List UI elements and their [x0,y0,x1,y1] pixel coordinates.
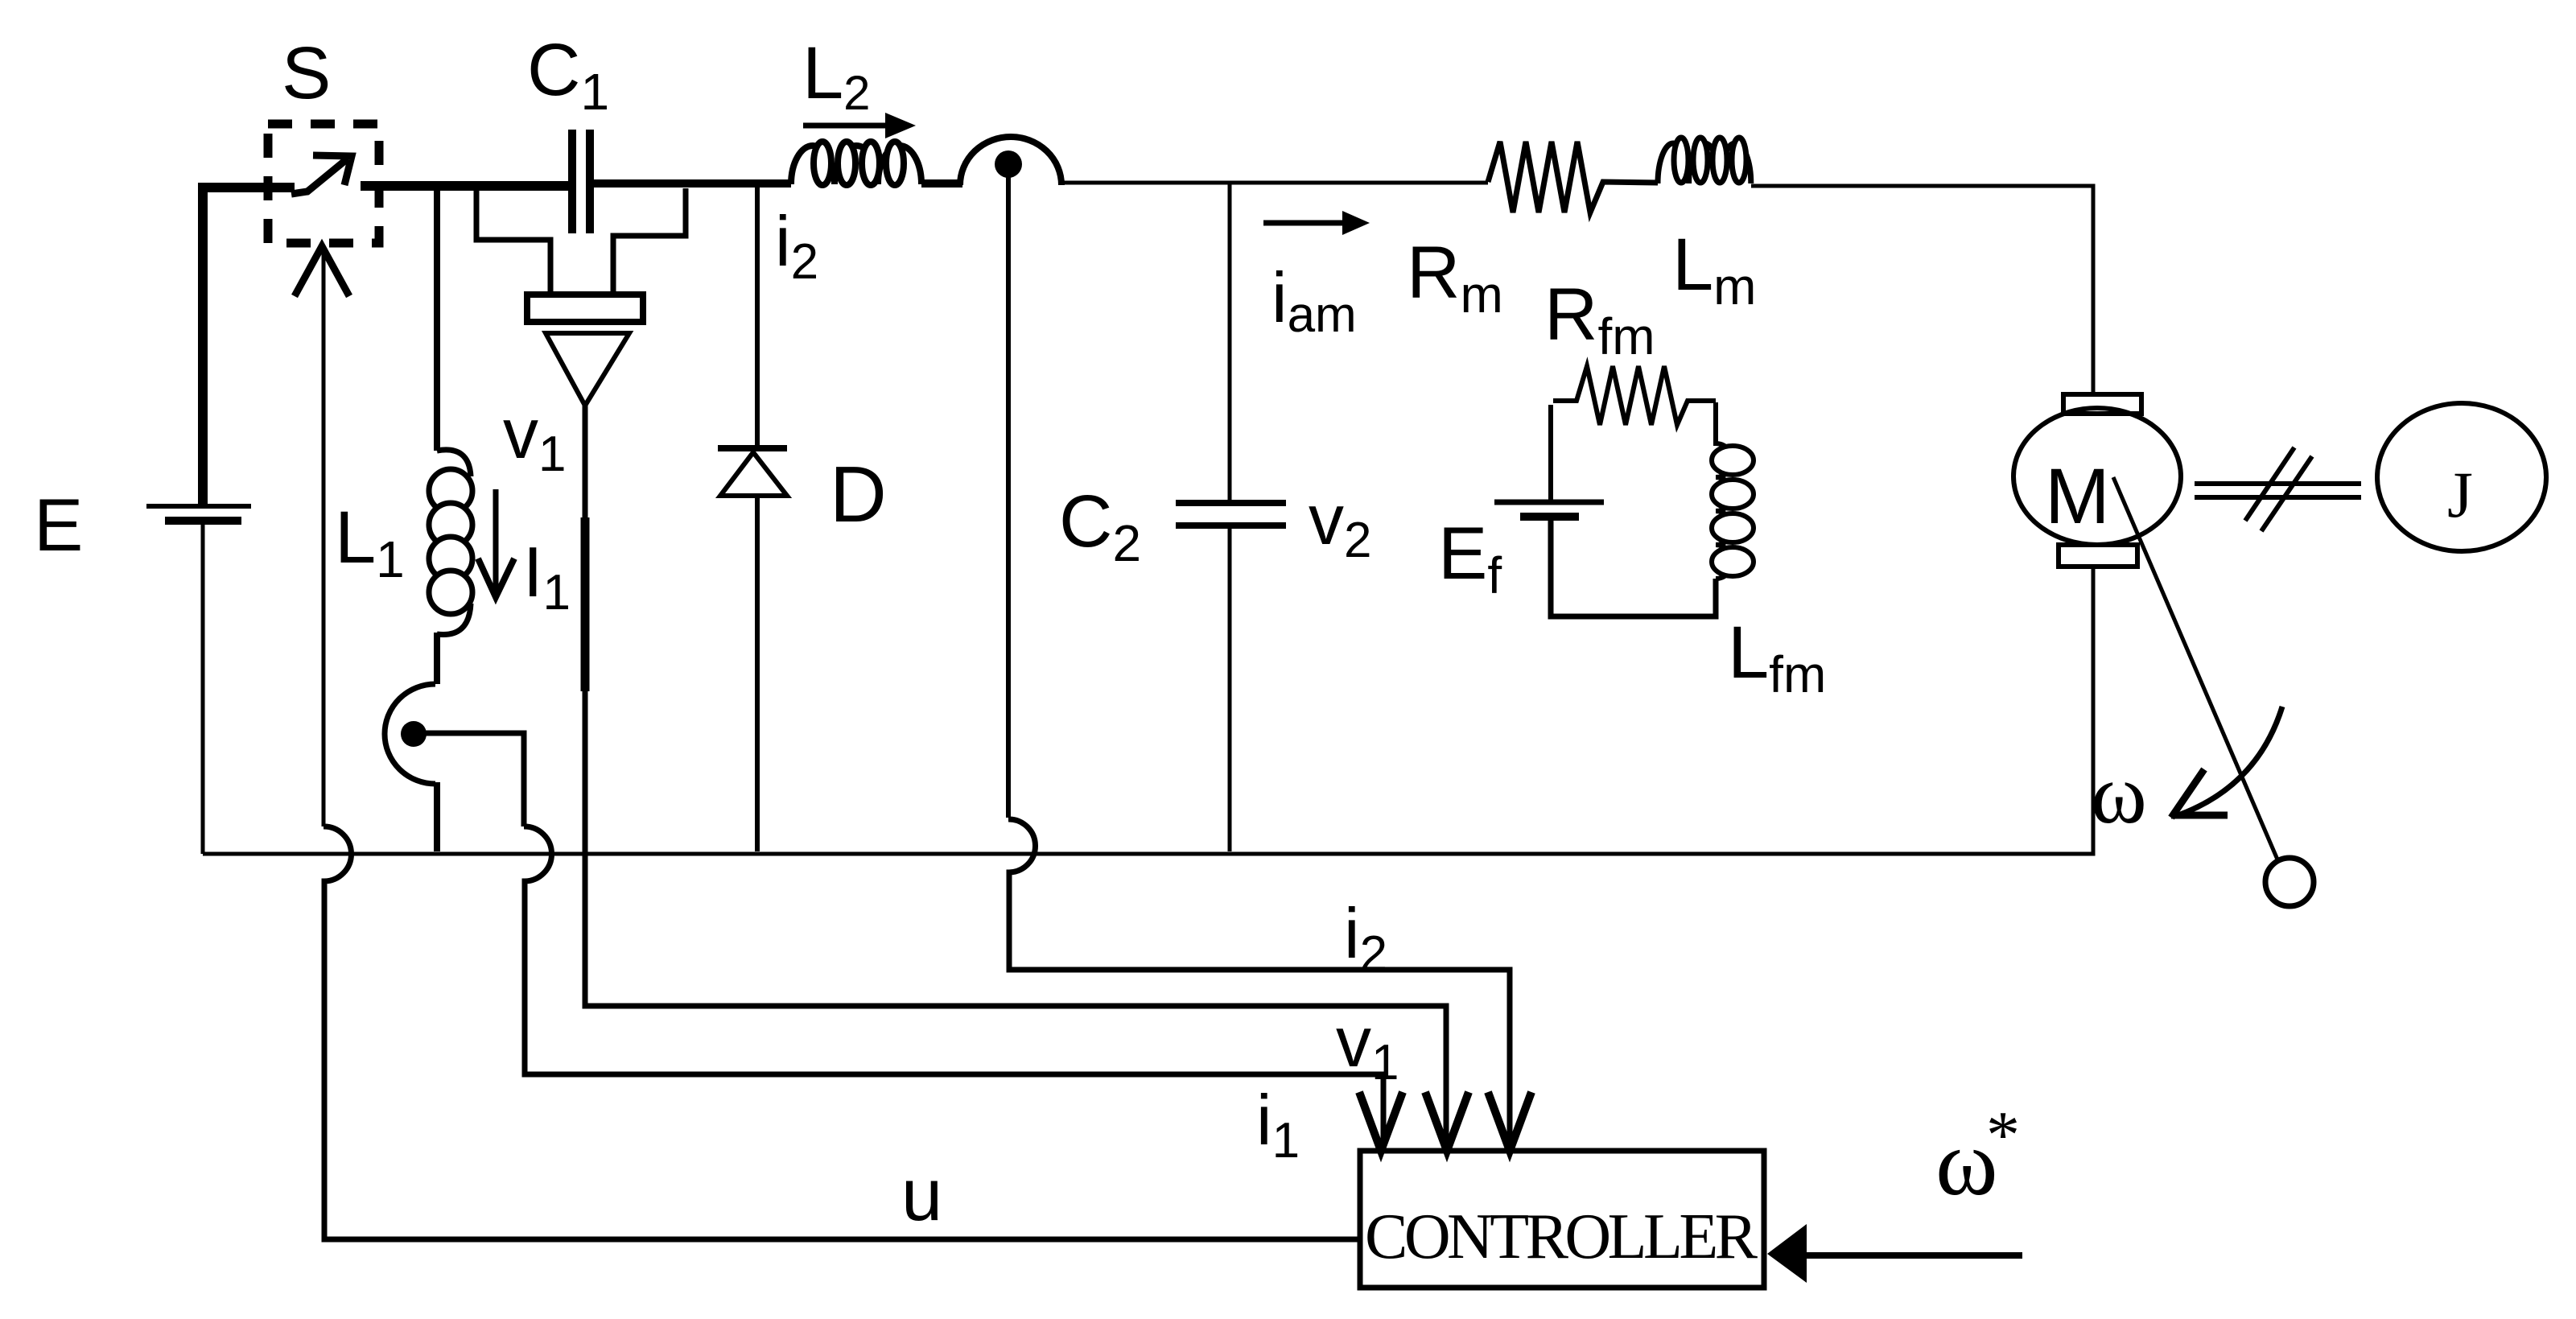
load J circle [2377,403,2546,551]
svg-text:ω: ω [2091,747,2147,841]
u wire hop over bus [324,826,1360,1239]
lever end circle [2265,858,2314,906]
battery E bottom lead [201,522,205,854]
wire: L2 to i2 sensor [921,179,962,188]
wire: i2 sensor signal down to bus hop [1006,164,1011,818]
inductor L1 coil [429,450,472,635]
u feedback wire: up arrow to switch [295,246,349,826]
svg-text:E: E [34,484,83,567]
field circuit left wire [1548,405,1553,501]
v1 transducer box [527,295,643,322]
capacitor C1 [572,130,590,233]
capacitor C2 branch top [1228,183,1232,500]
v1 arrow (down) beside L1 [478,489,514,597]
omega* reference arrow [1804,1252,2022,1259]
battery Ef plates [1494,500,1604,505]
diode D [718,445,787,451]
switch S blade with arrow [291,155,352,194]
field circuit bottom loop [1551,519,1716,616]
field circuit: resistor Rfm [1553,366,1716,425]
inductor L2 coil [791,146,921,184]
shaft double line [2195,481,2361,486]
capacitor C2 plates [1176,500,1286,506]
iam arrow [1263,221,1352,226]
controller input arrowheads [1359,1092,1531,1151]
omega rotation arrow [2176,707,2282,816]
v1 transducer triangle [546,333,629,406]
svg-text:D: D [830,450,887,538]
capacitor C2 branch bottom [1228,526,1232,851]
wire: top-left from E to switch S [203,188,295,507]
inductor L1 lead top [434,187,440,451]
speed lever [2113,477,2277,859]
wire: I1 sensor signal to bus hop [414,733,524,826]
diode D lead top [755,183,760,445]
battery E plates [146,504,251,509]
svg-text:M: M [2045,452,2110,540]
svg-text:u: u [901,1154,942,1236]
current sensor i2 (arc + dot) [960,137,1061,185]
v1 sensor bracket across C1 [476,188,686,295]
svg-text:S: S [282,32,331,114]
v1 signal wire from transducer to controller [585,406,1446,1149]
arrow above L2 [803,123,900,129]
motor M bottom brush [2059,545,2137,567]
svg-text:J: J [2447,458,2473,531]
wire: Lm to motor (top right corner) [1751,186,2093,394]
wire: C1 to diode node and L2 [590,179,791,188]
motor M circle [2013,408,2181,545]
wire: i2 sensor to Rm [1062,181,1488,185]
svg-text:*: * [1986,1098,2020,1173]
inductor Lm coil [1658,143,1751,183]
inductor Lfm coil [1716,402,1733,579]
battery E top lead [199,187,204,504]
motor M top brush [2063,394,2141,414]
current sensor I1 (arc + dot) [385,684,435,784]
svg-text:CONTROLLER: CONTROLLER [1365,1202,1758,1272]
diode D lead bottom [755,496,760,851]
resistor Rm [1488,142,1658,212]
switch S dashed box [268,124,379,243]
wire: motor to bottom bus (right edge) [203,567,2093,854]
shaft slash marks [2245,447,2294,521]
controller box [1360,1151,1764,1288]
i1 wire hop over bus and run to controller [524,826,1383,1149]
i2 wire hop over bus and run to controller [1008,819,1510,1149]
wire: switch to C1 [361,181,568,191]
inductor L1 lead bottom [434,633,440,684]
v1 signal wire thick mid segment [581,517,590,691]
